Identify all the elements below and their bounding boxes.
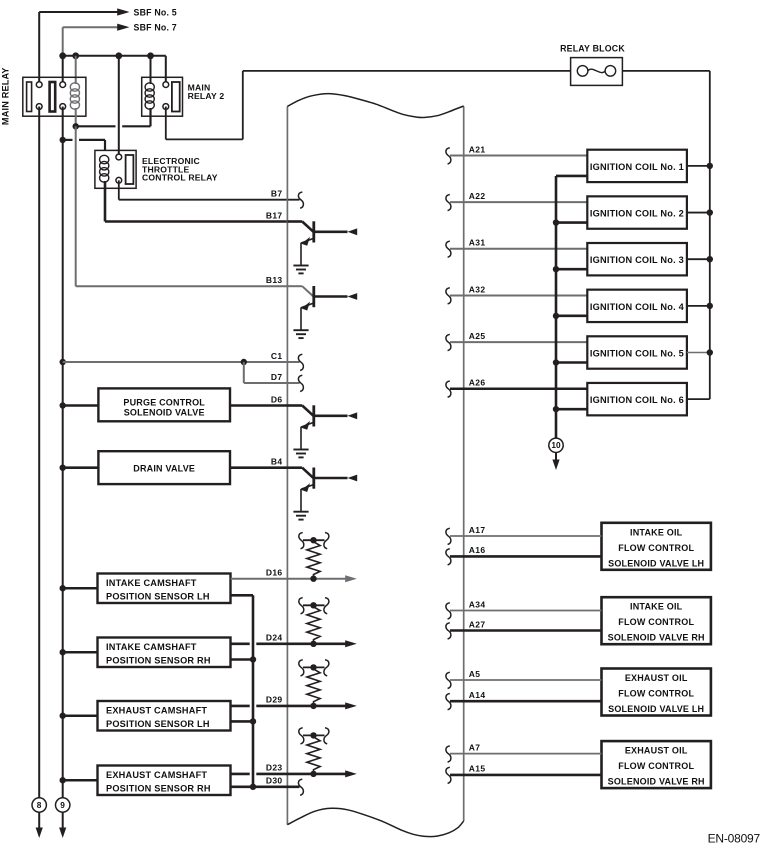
svg-text:A31: A31 [469, 238, 486, 248]
svg-text:8: 8 [37, 800, 42, 810]
svg-text:SBF No. 7: SBF No. 7 [134, 23, 177, 33]
svg-text:A32: A32 [469, 284, 486, 294]
svg-text:D29: D29 [266, 695, 283, 705]
svg-text:IGNITION COIL No. 5: IGNITION COIL No. 5 [590, 348, 684, 358]
svg-text:SOLENOID VALVE RH: SOLENOID VALVE RH [608, 633, 705, 643]
svg-text:INTAKE OIL: INTAKE OIL [630, 602, 683, 612]
svg-text:D24: D24 [266, 633, 283, 643]
svg-text:A15: A15 [469, 764, 486, 774]
svg-text:IGNITION COIL No. 1: IGNITION COIL No. 1 [590, 162, 684, 172]
svg-text:B17: B17 [266, 210, 283, 220]
svg-text:B7: B7 [271, 189, 283, 199]
svg-text:A25: A25 [469, 331, 486, 341]
svg-text:INTAKE CAMSHAFT: INTAKE CAMSHAFT [106, 578, 197, 588]
svg-text:A14: A14 [469, 690, 486, 700]
svg-text:C1: C1 [271, 351, 283, 361]
svg-text:FLOW CONTROL: FLOW CONTROL [618, 689, 694, 699]
svg-text:B13: B13 [266, 275, 283, 285]
svg-text:SOLENOID VALVE: SOLENOID VALVE [124, 407, 205, 417]
svg-text:EXHAUST CAMSHAFT: EXHAUST CAMSHAFT [106, 770, 207, 780]
svg-text:A21: A21 [469, 144, 486, 154]
svg-text:D30: D30 [266, 776, 283, 786]
svg-text:EXHAUST OIL: EXHAUST OIL [625, 673, 688, 683]
svg-text:9: 9 [60, 800, 65, 810]
svg-text:A16: A16 [469, 545, 486, 555]
svg-text:A17: A17 [469, 525, 486, 535]
svg-text:IGNITION COIL No. 3: IGNITION COIL No. 3 [590, 255, 684, 265]
svg-text:A26: A26 [469, 378, 486, 388]
svg-text:B4: B4 [271, 457, 283, 467]
svg-text:FLOW CONTROL: FLOW CONTROL [618, 543, 694, 553]
svg-text:POSITION SENSOR LH: POSITION SENSOR LH [106, 719, 210, 729]
svg-text:RELAY BLOCK: RELAY BLOCK [560, 44, 625, 54]
svg-text:D23: D23 [266, 763, 283, 773]
svg-text:POSITION SENSOR LH: POSITION SENSOR LH [106, 591, 210, 601]
svg-text:A7: A7 [469, 742, 481, 752]
svg-text:EXHAUST CAMSHAFT: EXHAUST CAMSHAFT [106, 706, 207, 716]
svg-text:D6: D6 [271, 394, 283, 404]
svg-text:SOLENOID VALVE LH: SOLENOID VALVE LH [608, 704, 704, 714]
svg-text:IGNITION COIL No. 2: IGNITION COIL No. 2 [590, 208, 684, 218]
svg-text:EXHAUST OIL: EXHAUST OIL [625, 746, 688, 756]
svg-text:POSITION SENSOR RH: POSITION SENSOR RH [106, 783, 211, 793]
svg-text:INTAKE CAMSHAFT: INTAKE CAMSHAFT [106, 642, 197, 652]
svg-text:DRAIN VALVE: DRAIN VALVE [133, 463, 195, 473]
svg-text:SBF No. 5: SBF No. 5 [134, 7, 177, 17]
svg-text:RELAY 2: RELAY 2 [188, 91, 225, 101]
svg-text:A34: A34 [469, 599, 486, 609]
svg-text:INTAKE OIL: INTAKE OIL [630, 527, 683, 537]
svg-text:IGNITION COIL No. 6: IGNITION COIL No. 6 [590, 395, 684, 405]
svg-text:A27: A27 [469, 619, 486, 629]
svg-text:SOLENOID VALVE RH: SOLENOID VALVE RH [608, 777, 705, 787]
svg-text:PURGE CONTROL: PURGE CONTROL [123, 397, 205, 407]
svg-text:IGNITION COIL No. 4: IGNITION COIL No. 4 [590, 302, 685, 312]
svg-text:A5: A5 [469, 669, 481, 679]
svg-text:A22: A22 [469, 191, 486, 201]
svg-text:MAIN RELAY: MAIN RELAY [0, 67, 10, 125]
svg-text:10: 10 [551, 440, 561, 450]
svg-text:POSITION SENSOR RH: POSITION SENSOR RH [106, 655, 211, 665]
svg-text:CONTROL RELAY: CONTROL RELAY [142, 173, 218, 183]
svg-text:FLOW CONTROL: FLOW CONTROL [618, 761, 694, 771]
svg-text:SOLENOID VALVE LH: SOLENOID VALVE LH [608, 558, 704, 568]
svg-text:D7: D7 [271, 372, 283, 382]
svg-text:FLOW CONTROL: FLOW CONTROL [618, 617, 694, 627]
svg-text:EN-08097: EN-08097 [708, 832, 761, 846]
svg-text:D16: D16 [266, 568, 283, 578]
